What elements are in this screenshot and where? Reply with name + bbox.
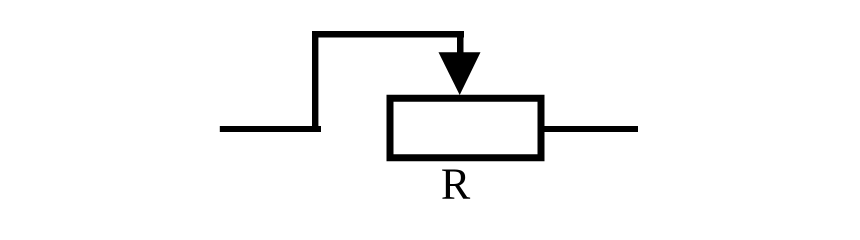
wire top horizontal [312, 31, 464, 38]
resistor R body [390, 98, 541, 158]
wiper arrow [439, 52, 481, 95]
wire vertical riser [312, 31, 318, 132]
wire left terminal [220, 126, 321, 132]
wire wiper drop [457, 31, 464, 53]
wire right terminal [544, 126, 638, 132]
svg-text:R: R [441, 160, 471, 209]
